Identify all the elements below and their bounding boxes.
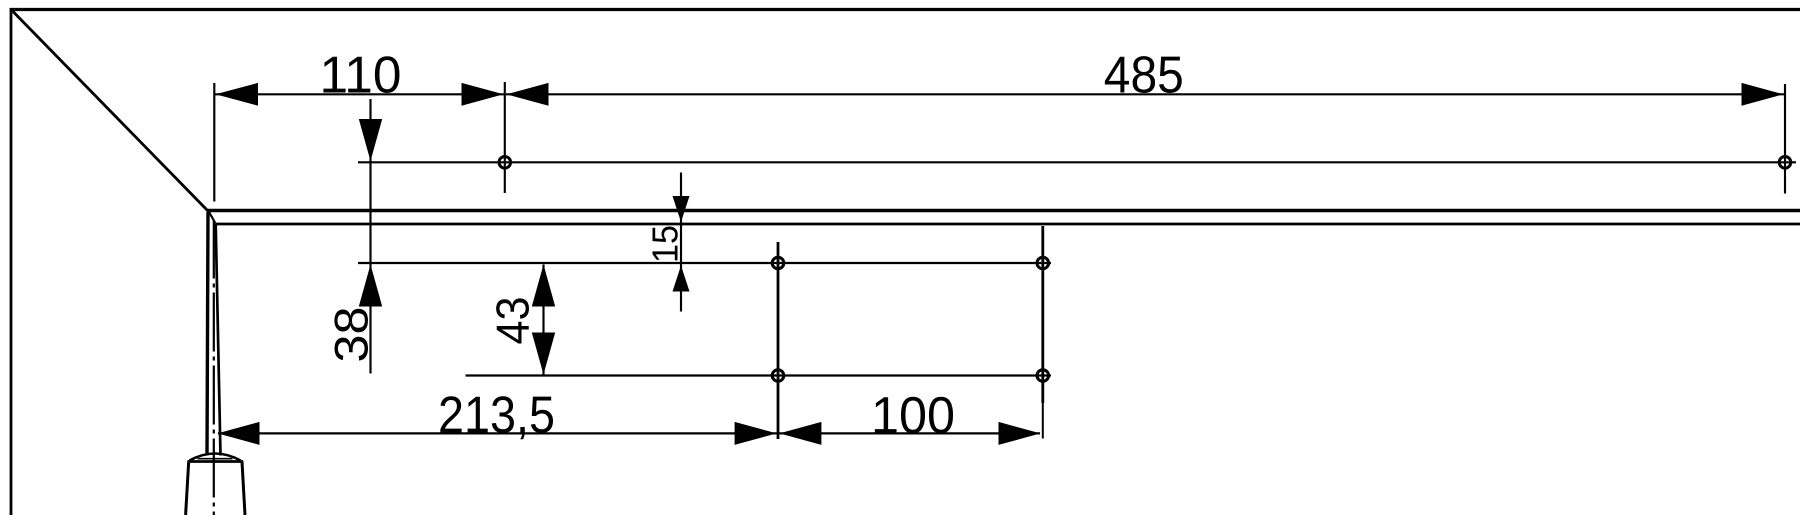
svg-text:213,5: 213,5 bbox=[438, 387, 555, 445]
arrowhead 485 right bbox=[1742, 83, 1784, 106]
frame head inner line bbox=[216, 223, 1800, 226]
door closer cylinder left side bbox=[186, 462, 189, 515]
cylinder dome arc bbox=[190, 454, 241, 461]
hole line C bbox=[466, 374, 1052, 376]
extension line first hole bbox=[504, 82, 506, 193]
arrowhead 213,5 right bbox=[735, 422, 777, 445]
hole centerline A bbox=[358, 161, 1796, 163]
dimension 38 line bbox=[369, 99, 371, 374]
hole marker top-right bbox=[1779, 157, 1791, 169]
mounting holes right vertical lower tick bbox=[1042, 403, 1044, 439]
frame head outer line bbox=[208, 209, 1800, 213]
wall left edge line bbox=[10, 8, 13, 515]
svg-text:100: 100 bbox=[871, 387, 955, 445]
mounting holes left vertical bbox=[777, 242, 780, 439]
door closer cylinder right side bbox=[242, 462, 245, 515]
dimension line 213,5 bbox=[218, 432, 777, 434]
arrowhead 38 up bbox=[359, 265, 382, 307]
extension line last hole bbox=[1784, 84, 1786, 194]
arrowhead 100 left bbox=[779, 422, 821, 445]
arrowhead 15 down bbox=[673, 196, 690, 222]
hinge axis centerline (dash-dot) bbox=[213, 220, 215, 515]
cylinder shoulder line bbox=[188, 460, 244, 463]
hole marker rect bottom-left bbox=[772, 370, 784, 382]
hole marker rect top-right bbox=[1037, 257, 1049, 269]
svg-text:485: 485 bbox=[1104, 47, 1184, 105]
hole marker top-left bbox=[499, 157, 511, 169]
hole marker rect top-left bbox=[772, 257, 784, 269]
hole marker rect bottom-right bbox=[1037, 370, 1049, 382]
arrowhead 15 up bbox=[673, 266, 690, 292]
cylinder dome inner edge bbox=[198, 458, 233, 460]
dimension line 485 bbox=[506, 93, 1784, 95]
arrowhead 213,5 left bbox=[218, 422, 260, 445]
svg-text:15: 15 bbox=[645, 225, 686, 263]
dimension 15 line bbox=[680, 173, 682, 312]
door jamb inner edge (spindle right) bbox=[216, 224, 221, 456]
arrowhead 110 left bbox=[216, 83, 259, 106]
dimension line 43 bbox=[542, 265, 544, 375]
arrowhead 38 down bbox=[359, 119, 382, 161]
extension line door axis bbox=[213, 83, 215, 202]
mounting holes right vertical bbox=[1041, 226, 1044, 403]
arrowhead 485 left bbox=[507, 83, 549, 106]
arrowhead 43 up bbox=[532, 265, 555, 307]
wall top edge line bbox=[10, 8, 1800, 11]
arrowhead 110 right bbox=[462, 83, 504, 106]
hole line B bbox=[358, 262, 1051, 264]
arrowhead 43 down bbox=[532, 333, 555, 375]
frame miter diagonal bbox=[12, 10, 209, 212]
door jamb outer edge (spindle left) bbox=[207, 212, 208, 456]
arrowhead 100 right bbox=[999, 422, 1041, 445]
dimension line 100 bbox=[779, 432, 1040, 434]
svg-text:43: 43 bbox=[487, 297, 539, 345]
frame corner miter bbox=[209, 211, 216, 224]
svg-text:110: 110 bbox=[320, 47, 402, 105]
dimension line 110 bbox=[214, 93, 505, 95]
svg-text:38: 38 bbox=[325, 307, 378, 363]
